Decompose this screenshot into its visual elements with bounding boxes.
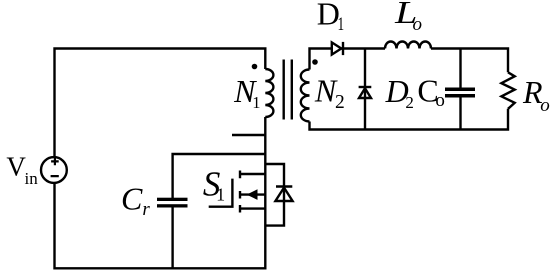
svg-text:r: r	[142, 199, 150, 220]
svg-text:o: o	[540, 95, 550, 116]
svg-text:in: in	[25, 169, 39, 188]
svg-text:o: o	[413, 14, 423, 35]
svg-text:D: D	[317, 0, 340, 32]
svg-text:C: C	[121, 180, 143, 216]
svg-text:o: o	[435, 90, 445, 111]
svg-text:1: 1	[216, 185, 225, 205]
svg-text:2: 2	[405, 93, 414, 112]
svg-text:1: 1	[338, 13, 345, 35]
svg-text:2: 2	[335, 92, 345, 113]
svg-text:1: 1	[252, 93, 260, 112]
svg-text:V: V	[6, 152, 26, 182]
